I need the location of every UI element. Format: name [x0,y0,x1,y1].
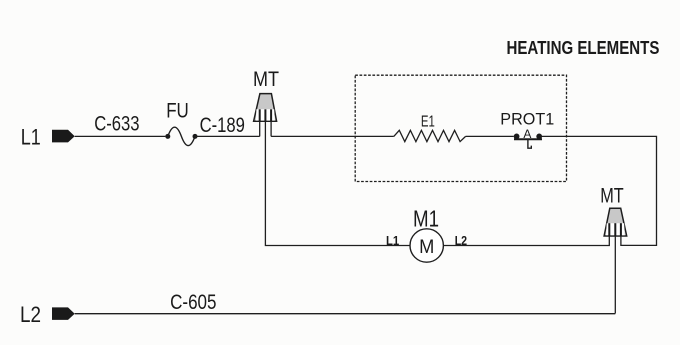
wire resistor to protector [466,135,514,137]
connector L2 flag [52,307,75,320]
svg-text:C-605: C-605 [170,291,216,314]
wire nut center lead down to motor branch [265,121,410,245]
wire nut right center lead down to L2 [614,236,616,314]
svg-text:FU: FU [166,100,189,123]
svg-text:E1: E1 [421,114,435,131]
wire nut left lead down to main wire [259,121,261,136]
wire nut right lead down to main wire [270,121,272,136]
wire L1 to fuse [75,135,166,137]
dashed enclosure heating elements [355,75,566,181]
svg-text:C-633: C-633 [94,113,139,136]
wire fuse to MT nut [195,135,260,137]
wire protector to right side and down to right nut [542,136,657,245]
svg-text:PROT1: PROT1 [500,110,554,129]
svg-text:MT: MT [253,68,279,91]
svg-text:L1: L1 [386,234,399,248]
connector L1 flag [52,130,75,143]
wire MT to resistor [271,135,394,137]
svg-text:C-189: C-189 [200,114,245,137]
svg-text:MT: MT [600,184,624,207]
wire motor to right nut [443,236,609,246]
svg-text:HEATING ELEMENTS: HEATING ELEMENTS [507,38,660,58]
resistor E1 [394,130,466,141]
svg-text:M: M [419,237,434,258]
svg-text:A: A [523,127,531,141]
thermal protector PROT1 [514,134,542,149]
svg-text:L1: L1 [21,125,41,150]
motor M1 [410,229,443,262]
wire nut MT right [604,208,627,236]
wire L2 [75,313,616,315]
svg-text:M1: M1 [413,206,439,232]
wire nut MT top [254,94,277,122]
fuse FU [165,127,197,145]
svg-text:L2: L2 [20,302,41,327]
